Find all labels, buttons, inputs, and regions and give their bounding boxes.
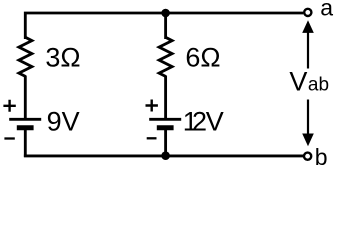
wire: battery 12V to bottom rail — [164, 129, 167, 157]
wire: bottom rail from left corner to terminal b — [24, 154, 303, 157]
svg-text:3Ω: 3Ω — [45, 43, 80, 73]
wire: battery 9V to bottom rail — [24, 129, 27, 157]
Vab arrow lower segment (arrowhead pointing down at terminal b) — [307, 100, 309, 135]
svg-text:a: a — [320, 0, 333, 21]
junction node: bottom (middle branch meets bottom rail) — [161, 151, 170, 160]
wire: resistor 6Ω to battery 12V — [164, 76, 167, 119]
battery 9V − polarity mark — [4, 137, 14, 139]
svg-text:6Ω: 6Ω — [185, 43, 220, 73]
battery 9V + polarity mark — [3, 100, 15, 112]
Vab arrow upper segment (arrowhead pointing up at terminal a) — [307, 32, 309, 69]
wire: resistor 3Ω to battery 9V — [24, 76, 27, 119]
battery 12V positive plate (long) — [149, 118, 181, 121]
battery 9V positive plate (long) — [9, 118, 41, 121]
battery 12V negative plate (short thick) — [157, 125, 174, 130]
terminal a (open circle) — [304, 9, 311, 16]
svg-text:12V: 12V — [183, 107, 224, 137]
resistor 3Ω (left branch) — [19, 37, 32, 76]
battery 9V negative plate (short thick) — [17, 125, 34, 130]
resistor 6Ω (middle branch) — [159, 37, 172, 76]
svg-text:9V: 9V — [47, 107, 80, 137]
terminal b (open circle) — [304, 153, 311, 160]
battery 12V − polarity mark — [147, 137, 157, 139]
wire: top rail with left corner down to resistor 3Ω — [25, 13, 166, 39]
svg-text:b: b — [315, 144, 328, 170]
svg-text:Vab: Vab — [289, 66, 329, 96]
battery 12V + polarity mark — [146, 100, 158, 112]
junction node: top (middle branch meets top rail) — [161, 9, 170, 18]
wire: top rail right segment to terminal a — [165, 12, 303, 15]
wire: middle branch from top junction to resistor 6Ω — [164, 13, 167, 39]
